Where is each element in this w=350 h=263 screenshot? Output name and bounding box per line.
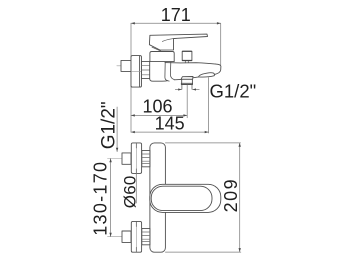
upper escutcheon center ticks [135, 144, 137, 174]
housing right contour lines [165, 62, 174, 81]
diverter knob top and bottom edges [182, 51, 191, 60]
svg-text:130-170: 130-170 [90, 161, 110, 236]
lower escutcheon centerline [135, 223, 137, 251]
svg-text:Ø60: Ø60 [121, 175, 140, 208]
handle outer shell [150, 184, 221, 212]
dimension 209 bottom extension line [165, 251, 240, 253]
dimension 145 extension line [208, 78, 210, 134]
inlet nipple centerline (side view) [117, 65, 131, 67]
spout underside [174, 77, 198, 80]
wall flange front-face edge [139, 56, 141, 87]
handle collar top-left slope [152, 47, 161, 51]
diameter 60 leader line [135, 174, 137, 204]
aerator thread sides [182, 85, 192, 90]
spout tip [214, 64, 221, 74]
thread dimension left [175, 88, 181, 90]
body bar [150, 143, 166, 252]
inlet nipple (side view) [121, 60, 131, 71]
upper escutcheon centerline [135, 144, 137, 172]
aerator top lip [181, 77, 193, 80]
svg-text:G1/2": G1/2" [98, 101, 119, 149]
thread dimension right [193, 88, 200, 90]
dimension 209 line [239, 143, 241, 252]
diverter knob [182, 51, 192, 60]
svg-text:171: 171 [161, 5, 191, 25]
handle face [151, 186, 212, 210]
lower connection centerline [108, 236, 151, 238]
upper inlet nipple (front view) [122, 153, 131, 164]
dimension 171 left extension line [130, 23, 132, 132]
dimension 145 line [131, 131, 209, 133]
aerator [182, 79, 193, 83]
upper escutcheon [131, 143, 141, 174]
svg-text:145: 145 [155, 114, 185, 134]
lever handle [149, 34, 207, 50]
body housing outline [150, 62, 168, 82]
G1/2 leader line (front view) [116, 107, 118, 152]
svg-text:209: 209 [221, 178, 241, 213]
svg-text:G1/2": G1/2" [210, 81, 257, 102]
diverter knob stem [185, 61, 188, 63]
dimension 209 top extension line [165, 142, 240, 144]
lower escutcheon [131, 221, 141, 252]
dimension 171 line [131, 22, 221, 24]
dimension 171 right extension line [220, 24, 222, 65]
dimension 106 line [131, 114, 187, 116]
handle collar [150, 52, 174, 62]
dimension 130-170 line [109, 159, 111, 237]
lower union nut [142, 228, 150, 244]
handle centerline [150, 197, 171, 199]
lever handle inner crease [162, 38, 176, 41]
lower escutcheon center ticks [135, 222, 137, 252]
union nut (side view) [142, 61, 150, 78]
wall flange escutcheon (side view) [131, 56, 142, 88]
spout top edge [165, 63, 216, 65]
dimension 106 extension line [186, 85, 188, 118]
lower inlet nipple (front view) [122, 231, 131, 242]
spout end cap [199, 73, 215, 77]
wall flange mid seam [131, 70, 141, 72]
aerator bottom band [181, 83, 192, 84]
upper union nut [142, 150, 150, 166]
body housing and spout silhouette [150, 62, 221, 82]
upper connection centerline [108, 158, 151, 160]
